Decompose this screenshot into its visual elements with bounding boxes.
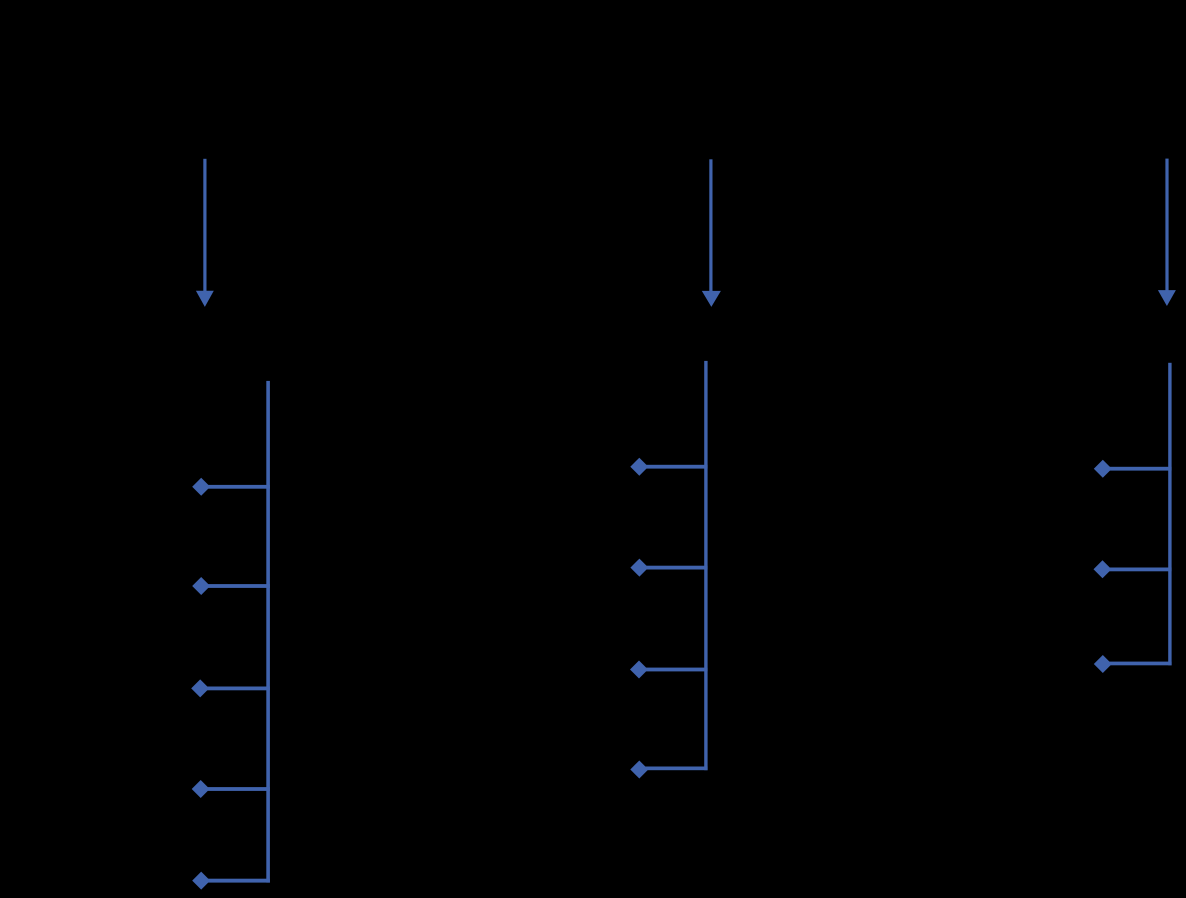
column 3 diamond 3: [1094, 655, 1112, 673]
column 1 connector 1: [201, 485, 270, 489]
column 3 diamond 1: [1094, 460, 1112, 478]
column 1 connector 4: [201, 787, 270, 791]
column 2 diamond 3: [630, 661, 648, 679]
column 3 arrowhead: [1158, 290, 1176, 306]
column 2 diamond 2: [630, 559, 648, 577]
column 2 timeline vertical line: [704, 361, 707, 770]
column 1 diamond 1: [192, 478, 210, 496]
column 3 connector 1: [1103, 467, 1172, 471]
column 1 diamond 4: [192, 780, 210, 798]
column 1 timeline vertical line: [266, 381, 270, 883]
column 3 down-arrow shaft: [1165, 159, 1168, 292]
column 3 timeline vertical line: [1168, 363, 1171, 666]
column 1 diamond 2: [192, 577, 210, 595]
column 1 diamond 3: [191, 679, 209, 697]
column 1 diamond 5: [192, 872, 210, 890]
column 1 arrowhead: [196, 291, 214, 307]
column 3 diamond 2: [1094, 560, 1112, 578]
column 2 diamond 1: [630, 458, 648, 476]
column 2 diamond 4: [630, 761, 648, 779]
column 2 bottom elbow connector: [639, 767, 708, 771]
column 2 down-arrow shaft: [709, 159, 712, 291]
column 2 connector 2: [639, 566, 708, 570]
column 1 bottom elbow connector: [201, 879, 270, 883]
column 1 connector 3: [200, 687, 270, 691]
column 3 bottom elbow connector: [1103, 662, 1172, 666]
column 2 arrowhead: [702, 291, 721, 307]
column 2 connector 1: [639, 465, 708, 469]
column 1 connector 2: [201, 584, 270, 588]
column 2 connector 3: [639, 668, 708, 672]
column 1 down-arrow shaft: [203, 159, 206, 292]
column 3 connector 2: [1103, 568, 1172, 572]
